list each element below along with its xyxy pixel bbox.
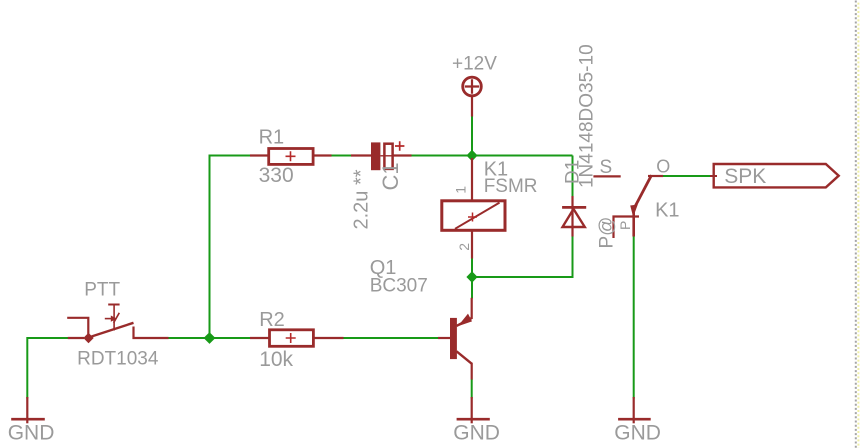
- ground GND3 bar: [618, 418, 651, 421]
- svg-text:PTT: PTT: [84, 279, 120, 300]
- relay contact K1 arm: [634, 175, 652, 208]
- transistor Q1 collector diagonal: [457, 351, 472, 363]
- svg-text:R1: R1: [259, 126, 285, 148]
- relay contact K1 P bent pin: [614, 217, 640, 239]
- wire top rail left to R1: [210, 155, 251, 157]
- wire Q1 collector to GND2: [471, 379, 473, 399]
- relay coil K1 body: [442, 201, 505, 231]
- svg-text:K1: K1: [655, 200, 679, 222]
- capacitor C1 left plate filled: [371, 142, 380, 170]
- svg-text:P: P: [617, 221, 633, 230]
- resistor R2 body: [270, 330, 314, 347]
- svg-text:R2: R2: [259, 309, 285, 331]
- svg-text:RDT1034: RDT1034: [77, 349, 159, 370]
- svg-text:+12V: +12V: [452, 53, 497, 74]
- supply +12V circle: [463, 77, 482, 96]
- svg-text:BC307: BC307: [370, 276, 428, 297]
- resistor R1 origin cross: [286, 151, 296, 161]
- wire relay pole to GND3: [633, 236, 635, 399]
- svg-text:GND: GND: [453, 421, 500, 444]
- switch PTT actuator diagonal tick: [114, 313, 120, 323]
- wire relay pin2 lower: [471, 258, 473, 277]
- ground GND1 pin: [26, 397, 28, 423]
- transistor Q1 emitter diagonal: [457, 318, 472, 326]
- switch PTT bent terminal: [67, 318, 88, 334]
- relay coil K1 pin 1: [471, 158, 473, 201]
- svg-text:FSMR: FSMR: [484, 176, 538, 197]
- capacitor C1 right plate outline: [384, 144, 392, 169]
- switch PTT actuator arrow head: [111, 316, 117, 322]
- resistor R2 pin left: [250, 337, 270, 339]
- relay coil K1 diagonal: [455, 203, 500, 229]
- svg-text:O: O: [656, 157, 670, 177]
- wire bottom rail relay to D1: [472, 276, 573, 278]
- wire C1 to junction to D1 top: [411, 155, 573, 157]
- transistor Q1 base bar: [450, 318, 457, 359]
- wire R2 to Q1 base: [343, 337, 439, 339]
- svg-text:GND: GND: [614, 421, 661, 444]
- wire R1 to C1: [331, 155, 352, 157]
- junction node A (top rail): [466, 150, 477, 161]
- svg-text:1: 1: [453, 186, 469, 194]
- relay contact K1 S stub: [593, 175, 620, 177]
- svg-text:2.2u **: 2.2u **: [350, 169, 372, 229]
- resistor R2 origin cross: [286, 333, 296, 343]
- transistor Q1 base pin: [438, 337, 451, 339]
- relay contact K1 O stub: [648, 175, 663, 177]
- junction node C (base rail): [204, 332, 216, 344]
- switch PTT right terminal: [134, 327, 169, 339]
- wire D1 bottom vertical: [572, 236, 574, 278]
- switch PTT left pin wire: [68, 337, 84, 339]
- ground GND2 pin: [471, 397, 473, 423]
- capacitor C1 pin left: [351, 154, 372, 156]
- switch PTT actuator stem: [113, 304, 115, 331]
- relay contact K1 arm arrowhead: [630, 205, 638, 218]
- wire junction to Q1 emitter: [471, 277, 473, 299]
- supply +12V pin: [471, 96, 473, 116]
- wire vertical node column x209: [209, 155, 211, 339]
- ground GND2 bar: [457, 418, 490, 421]
- resistor R1 body: [269, 149, 313, 165]
- connector SPK pin tick: [710, 175, 717, 177]
- switch PTT pivot diamond: [83, 333, 93, 343]
- connector SPK flag: [714, 164, 839, 187]
- capacitor C1 origin dash: [381, 155, 396, 157]
- supply +12V cross: [465, 79, 479, 94]
- svg-text:S: S: [600, 157, 613, 178]
- relay coil K1 origin cross: [468, 213, 477, 222]
- transistor Q1 collector pin vertical: [471, 363, 473, 380]
- page boundary dotted line yellow: [857, 3, 859, 448]
- wire GND1 to PTT horizontal: [27, 337, 68, 339]
- svg-text:GND: GND: [8, 422, 55, 445]
- capacitor C1 pin right: [391, 154, 412, 156]
- ground GND1 bar: [11, 418, 45, 421]
- relay contact K1 pole vertical: [632, 207, 635, 237]
- resistor R1 pin right: [313, 154, 332, 156]
- transistor Q1 emitter arrow: [458, 314, 472, 327]
- diode D1 triangle: [563, 209, 585, 227]
- wire +12V down: [471, 116, 473, 157]
- transistor Q1 emitter pin vertical: [471, 298, 473, 319]
- svg-text:330: 330: [259, 164, 294, 187]
- svg-text:10k: 10k: [259, 348, 293, 371]
- wire O contact to SPK: [662, 175, 716, 177]
- wire D1 top vertical: [572, 156, 574, 197]
- switch PTT actuator arrow shaft: [105, 318, 112, 320]
- page boundary dotted line gray: [855, 1, 857, 448]
- diode D1 pin vertical: [571, 196, 573, 237]
- capacitor C1 plus mark: [395, 141, 404, 151]
- switch PTT arm: [92, 323, 134, 337]
- svg-text:P@: P@: [597, 217, 618, 249]
- diode D1 cathode bar: [562, 206, 586, 209]
- resistor R1 pin left: [250, 154, 269, 156]
- switch PTT actuator T bar: [108, 304, 119, 306]
- resistor R2 pin right: [313, 337, 344, 339]
- junction node B (bottom rail relay): [466, 271, 477, 282]
- wire GND1 riser vertical: [26, 337, 28, 399]
- svg-text:2: 2: [456, 243, 472, 251]
- ground GND3 pin: [633, 397, 635, 423]
- svg-text:C1: C1: [378, 162, 403, 190]
- relay coil K1 pin 2: [471, 229, 473, 259]
- svg-text:SPK: SPK: [724, 165, 766, 188]
- svg-text:1N4148DO35-10: 1N4148DO35-10: [577, 44, 598, 188]
- wire PTT to junction to R2: [169, 337, 251, 339]
